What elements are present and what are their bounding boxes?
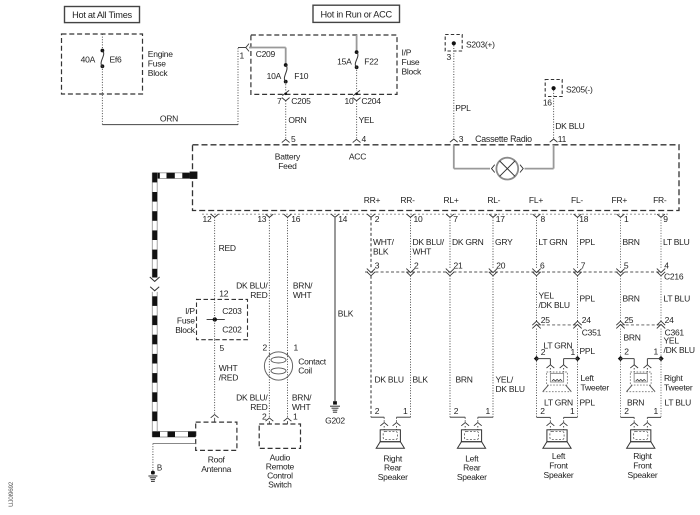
label PPL (FL bottom)	[580, 398, 596, 408]
label C361	[665, 327, 685, 337]
radio pin 5	[282, 134, 296, 144]
svg-text:2: 2	[541, 347, 546, 357]
radio pin 9	[657, 214, 668, 224]
svg-text:BRN: BRN	[624, 333, 641, 343]
S203 pin 3 label	[447, 52, 452, 62]
label Right Front Speaker	[628, 451, 658, 480]
label C351	[582, 327, 602, 337]
svg-text:I/P: I/P	[402, 48, 412, 58]
label ACC	[349, 152, 366, 162]
svg-text:8: 8	[541, 214, 546, 224]
svg-text:DK BLU/: DK BLU/	[236, 393, 268, 403]
radio pin 1	[617, 214, 629, 224]
svg-text:I/P: I/P	[185, 306, 195, 316]
left rear speaker pin 1	[474, 406, 491, 430]
svg-text:1: 1	[571, 347, 576, 357]
radio pin 2	[367, 214, 380, 224]
switch pin 2	[262, 412, 273, 425]
label Right Tweeter	[664, 373, 693, 392]
svg-text:Hot at All Times: Hot at All Times	[72, 10, 132, 20]
left rear speaker	[457, 430, 485, 448]
ground G202	[330, 401, 340, 412]
svg-text:BLK: BLK	[413, 375, 429, 385]
svg-text:BRN: BRN	[627, 398, 644, 408]
svg-text:1: 1	[486, 406, 491, 416]
wire FR- to right front speaker (LT BLU)	[647, 359, 661, 418]
connector C204 pin 10	[345, 90, 382, 106]
label C203	[222, 306, 242, 316]
radio pin 17	[489, 214, 505, 224]
I/P fuse block label (small)	[175, 306, 196, 335]
label YEL	[359, 115, 375, 125]
svg-text:12: 12	[203, 214, 212, 224]
label Contact Coil	[298, 356, 326, 375]
svg-text:18: 18	[579, 214, 588, 224]
C202 pin 5 label	[220, 343, 225, 353]
wire FL- to left front speaker (PPL)	[564, 359, 578, 418]
svg-text:10: 10	[345, 96, 354, 106]
left front speaker	[543, 430, 571, 448]
wire RL+ (DK GRN)	[449, 217, 451, 268]
roof antenna box	[196, 422, 237, 450]
I/P fuse block label (top)	[402, 48, 423, 77]
svg-text:Speaker: Speaker	[628, 470, 658, 480]
svg-text:LT BLU: LT BLU	[664, 294, 691, 304]
engine fuse block box	[62, 34, 143, 94]
svg-text:DK BLU/: DK BLU/	[413, 237, 445, 247]
radio pin 12	[203, 214, 219, 224]
wire FR- C216 to C361 (LT BLU)	[660, 276, 662, 321]
svg-text:F22: F22	[364, 57, 378, 67]
svg-text:/DK BLU: /DK BLU	[664, 345, 695, 355]
svg-text:25: 25	[624, 315, 633, 325]
audio remote control switch box	[259, 424, 300, 448]
label Roof Antenna	[201, 454, 231, 474]
wire: feed into fuse Ef6	[101, 34, 103, 51]
right tweeter pin 2	[630, 365, 638, 373]
wire RL- (GRY)	[492, 217, 494, 268]
wire: BLK from radio pin 14	[335, 217, 354, 401]
svg-text:DK BLU: DK BLU	[555, 121, 584, 131]
C216 pin 7	[573, 261, 586, 276]
I/P fuse block box (C203/C202)	[197, 299, 248, 339]
radio pin 10	[407, 214, 423, 224]
junction node FR- tweeter tap	[654, 347, 664, 362]
svg-text:PPL: PPL	[580, 346, 596, 356]
wire FR+ C361 to junction (BRN)	[620, 329, 622, 359]
svg-text:WHT: WHT	[413, 247, 432, 257]
svg-text:1: 1	[570, 406, 575, 416]
svg-text:Engine: Engine	[148, 49, 173, 59]
wire RR+ (WHT/BLK)	[370, 217, 372, 268]
label B	[157, 464, 162, 473]
header box: Hot in Run or ACC	[313, 5, 400, 22]
svg-text:G202: G202	[325, 415, 345, 425]
svg-text:3: 3	[447, 52, 452, 62]
radio pin 11	[550, 134, 567, 144]
wire FR+ C216 to C361 (BRN)	[620, 276, 622, 321]
svg-text:WHT: WHT	[293, 290, 312, 300]
label BRN (FR low)	[624, 333, 641, 343]
svg-text:FR+: FR+	[612, 195, 628, 205]
svg-text:RED: RED	[250, 290, 267, 300]
wire: lamp feed from pin 3	[454, 145, 490, 169]
lamp right chevron	[520, 165, 523, 173]
wire: DK BLU from S205 to radio pin 11	[554, 90, 585, 139]
C216 pin 3	[367, 261, 380, 276]
junction node FL- tweeter tap	[571, 347, 581, 361]
svg-text:Tweeter: Tweeter	[664, 382, 693, 392]
label PPL (FL low)	[580, 346, 596, 356]
right front speaker	[627, 430, 655, 448]
svg-text:C216: C216	[664, 272, 684, 282]
svg-text:/RED: /RED	[219, 372, 238, 382]
label YEL/DK BLU (RL)	[496, 375, 525, 395]
connector C361 row line	[621, 324, 662, 326]
svg-text:Switch: Switch	[268, 480, 292, 490]
wire: YEL to radio pin 4	[356, 101, 358, 140]
svg-text:Speaker: Speaker	[378, 472, 408, 482]
left tweeter pin 2	[547, 365, 555, 373]
wire RL- below C216 (YEL/DK BLU)	[478, 276, 493, 417]
wire through fuse block	[214, 299, 216, 339]
svg-text:Antenna: Antenna	[201, 464, 231, 474]
coax in-line connector arrow	[150, 277, 160, 281]
label BRN	[623, 237, 640, 247]
coax in-line connector chevron	[150, 287, 159, 291]
label BRN (RL)	[456, 375, 473, 385]
contact coil pin 1 label	[294, 343, 299, 353]
wire: WHT/RED to roof antenna	[215, 340, 239, 415]
wire FR- (LT BLU)	[660, 217, 662, 268]
wire: FL+ branch to left tweeter	[537, 359, 551, 365]
svg-text:2: 2	[540, 406, 545, 416]
svg-text:YEL/: YEL/	[496, 375, 514, 385]
label BRN/WHT (upper)	[293, 281, 313, 301]
svg-text:9: 9	[663, 214, 668, 224]
svg-text:BLK: BLK	[373, 247, 389, 257]
wire FL+ C351 to junction (LT GRN)	[536, 329, 538, 359]
svg-text:RL+: RL+	[443, 195, 458, 205]
C351 pin 24	[573, 315, 591, 328]
label BRN (FR bottom)	[627, 398, 644, 408]
cassette radio box	[193, 145, 680, 211]
svg-text:13: 13	[257, 214, 266, 224]
S205 pin 16 label	[543, 98, 552, 108]
contact coil pin 2 label	[263, 343, 268, 353]
splice junction C203/C202	[207, 317, 225, 321]
svg-text:BRN: BRN	[623, 237, 640, 247]
svg-text:LT GRN: LT GRN	[544, 398, 573, 408]
wire FL- C351 to junction (PPL)	[577, 329, 579, 359]
svg-text:2: 2	[375, 406, 380, 416]
svg-text:LT BLU: LT BLU	[663, 237, 690, 247]
wire: ORN to radio pin 5	[285, 101, 287, 140]
svg-text:21: 21	[454, 261, 463, 271]
C216 pin 21	[446, 261, 463, 276]
svg-text:S203(+): S203(+)	[466, 39, 495, 49]
label BRN (FR mid)	[623, 294, 640, 304]
label LT BLU (FR bottom)	[665, 398, 692, 408]
wire RL+ below C216 (BRN)	[450, 276, 465, 417]
wire RR- (DK BLU/WHT)	[410, 217, 412, 268]
wire: PPL from S203 to radio pin 3	[454, 45, 471, 139]
label PPL	[580, 237, 596, 247]
right rear speaker	[376, 430, 404, 448]
label DK GRN	[452, 237, 484, 247]
svg-text:RED: RED	[250, 402, 267, 412]
svg-text:YEL: YEL	[359, 115, 375, 125]
svg-text:FR-: FR-	[653, 195, 667, 205]
svg-text:5: 5	[624, 261, 629, 271]
connector C205 pin 7	[277, 90, 311, 106]
junction node FL+ tweeter tap	[534, 347, 546, 361]
radio pin 16	[284, 214, 301, 224]
svg-text:Fuse: Fuse	[148, 59, 166, 69]
svg-text:Cassette Radio: Cassette Radio	[475, 134, 532, 144]
svg-text:Speaker: Speaker	[457, 472, 487, 482]
svg-text:WHT: WHT	[292, 402, 311, 412]
svg-text:7: 7	[581, 261, 586, 271]
svg-text:2: 2	[624, 347, 629, 357]
left tweeter	[543, 372, 572, 392]
label C202	[222, 325, 242, 335]
svg-text:PPL: PPL	[455, 103, 471, 113]
svg-text:1: 1	[294, 343, 299, 353]
svg-text:ORN: ORN	[160, 113, 178, 123]
svg-text:Roof: Roof	[208, 454, 226, 464]
left front speaker pin 1	[560, 406, 575, 430]
svg-text:Fuse: Fuse	[402, 57, 420, 67]
left front speaker pin 2	[540, 406, 554, 430]
svg-text:DK GRN: DK GRN	[452, 237, 484, 247]
right front speaker pin 2	[624, 406, 638, 430]
svg-text:15A: 15A	[337, 57, 352, 67]
C351 pin 25	[532, 315, 550, 328]
label PPL (FL mid)	[580, 294, 596, 304]
svg-text:UJ0I9692: UJ0I9692	[8, 481, 15, 507]
svg-text:40A: 40A	[81, 55, 96, 65]
wire: F10 output to box edge	[285, 82, 287, 91]
wire: DK BLU/RED from radio pin 13	[268, 217, 270, 353]
svg-text:GRY: GRY	[495, 237, 513, 247]
svg-text:20: 20	[496, 261, 505, 271]
splice S205(-)	[545, 80, 593, 97]
radio pin 7	[446, 214, 458, 224]
svg-text:4: 4	[362, 134, 367, 144]
left rear speaker pin 2	[454, 406, 469, 430]
ground B	[148, 471, 157, 482]
engine fuse block label	[148, 49, 173, 78]
svg-text:FL+: FL+	[529, 195, 543, 205]
svg-text:BRN/: BRN/	[293, 281, 313, 291]
label G202	[325, 415, 345, 425]
wire: ORN horizontal run	[102, 113, 238, 124]
connector C209 pin 1	[240, 44, 276, 61]
svg-text:/DK BLU: /DK BLU	[539, 300, 570, 310]
svg-text:LT GRN: LT GRN	[539, 237, 568, 247]
right rear speaker pin 1	[393, 406, 408, 430]
svg-text:4: 4	[664, 261, 669, 271]
svg-text:12: 12	[219, 288, 228, 298]
svg-text:Feed: Feed	[278, 161, 297, 171]
label Cassette Radio	[475, 134, 532, 144]
svg-text:C205: C205	[291, 96, 311, 106]
coax antenna cable: lower vertical	[152, 292, 157, 437]
wire FL+ to left front speaker (LT GRN)	[537, 359, 551, 418]
wire: BRN/WHT from radio pin 16	[287, 217, 289, 353]
svg-text:ACC: ACC	[349, 152, 366, 162]
svg-text:PPL: PPL	[580, 294, 596, 304]
svg-text:7: 7	[453, 214, 458, 224]
radio pin 8	[533, 214, 546, 224]
C216 pin 6	[532, 261, 545, 276]
label Right Rear Speaker	[378, 453, 408, 482]
label LT BLU	[663, 237, 690, 247]
svg-text:ORN: ORN	[288, 115, 306, 125]
wire FL+ (LT GRN)	[536, 217, 538, 268]
svg-text:10: 10	[414, 214, 423, 224]
svg-text:FL-: FL-	[571, 195, 583, 205]
right tweeter	[626, 372, 655, 392]
wire: feed into fuse F22	[356, 35, 358, 52]
label C216	[664, 272, 684, 282]
svg-text:PPL: PPL	[580, 237, 596, 247]
label Left Rear Speaker	[457, 453, 487, 482]
svg-text:RED: RED	[219, 243, 236, 253]
connector C351 row line	[537, 324, 578, 326]
wire FR- C361 to junction (YEL/DK BLU)	[660, 329, 662, 359]
svg-text:Tweeter: Tweeter	[581, 382, 610, 392]
label DK BLU/RED (upper)	[236, 281, 268, 301]
label BLK (RR)	[413, 375, 429, 385]
wire: RED from radio pin 12	[215, 217, 236, 299]
svg-text:Block: Block	[175, 325, 196, 335]
C361 pin 25	[616, 315, 633, 328]
label WHT/BLK	[373, 237, 395, 257]
svg-text:7: 7	[277, 96, 282, 106]
wire RR- below C216 (BLK)	[397, 276, 411, 417]
label LT GRN (FL bottom)	[544, 398, 573, 408]
svg-text:1: 1	[240, 51, 245, 61]
svg-text:Ef6: Ef6	[110, 55, 123, 65]
svg-text:2: 2	[414, 261, 419, 271]
wire FL- C216 to C351 (PPL)	[577, 276, 579, 321]
svg-text:DK BLU/: DK BLU/	[236, 281, 268, 291]
svg-text:25: 25	[541, 315, 550, 325]
label ORN (I/P)	[288, 115, 306, 125]
svg-text:F10: F10	[294, 71, 308, 81]
svg-text:C351: C351	[582, 327, 602, 337]
label DK BLU (RR)	[375, 375, 404, 385]
svg-text:PPL: PPL	[580, 398, 596, 408]
fuse Ef6 40A	[81, 49, 122, 69]
radio speaker pin function labels	[364, 195, 667, 205]
label LT GRN (FL)	[544, 341, 573, 351]
splice S203(+)	[445, 35, 495, 52]
svg-text:Block: Block	[148, 68, 169, 78]
svg-text:DK BLU: DK BLU	[375, 375, 404, 385]
radio bottom connector strip	[202, 213, 670, 215]
svg-text:10A: 10A	[267, 71, 282, 81]
coax antenna cable: horizontal to roof antenna	[152, 432, 195, 438]
svg-text:Block: Block	[402, 67, 423, 77]
svg-text:1: 1	[624, 214, 629, 224]
svg-text:BRN: BRN	[623, 294, 640, 304]
svg-text:24: 24	[665, 315, 674, 325]
svg-text:WHT/: WHT/	[373, 237, 395, 247]
svg-text:2: 2	[263, 343, 268, 353]
illumination lamp	[496, 158, 518, 180]
svg-text:5: 5	[291, 134, 296, 144]
document number	[8, 481, 15, 507]
junction node FR+ tweeter tap	[618, 347, 630, 362]
lamp left chevron	[492, 165, 495, 173]
roof antenna pin	[211, 415, 219, 423]
svg-text:5: 5	[220, 343, 225, 353]
label Left Front Speaker	[544, 451, 574, 480]
wire: lamp return to pin 11	[525, 145, 554, 169]
svg-text:BRN/: BRN/	[292, 393, 312, 403]
svg-text:1: 1	[403, 406, 408, 416]
label LT BLU (FR mid)	[664, 294, 691, 304]
svg-text:24: 24	[582, 315, 591, 325]
I/P fuse block box (top)	[251, 35, 397, 94]
radio pin 3	[450, 134, 464, 144]
svg-text:BLK: BLK	[338, 309, 354, 319]
wire: F22 output to box edge	[356, 67, 358, 91]
svg-text:16: 16	[291, 214, 300, 224]
svg-text:C203: C203	[222, 306, 242, 316]
svg-text:1: 1	[654, 406, 659, 416]
right front speaker pin 1	[644, 406, 659, 430]
svg-text:C204: C204	[361, 96, 381, 106]
svg-text:Speaker: Speaker	[544, 470, 574, 480]
wire: FL- branch to left tweeter	[564, 359, 578, 365]
wire: FR+ branch to right tweeter	[621, 359, 635, 365]
svg-text:RL-: RL-	[487, 195, 500, 205]
svg-text:6: 6	[540, 261, 545, 271]
wire FR+ to right front speaker (BRN)	[621, 359, 635, 418]
label Left Tweeter	[581, 373, 610, 392]
label YEL/DK BLU (FL)	[539, 291, 570, 311]
wire FL+ C216 to C351 (YEL/DK BLU)	[536, 276, 538, 321]
svg-text:2: 2	[454, 406, 459, 416]
svg-text:Hot in Run or ACC: Hot in Run or ACC	[321, 10, 393, 20]
svg-text:2: 2	[624, 406, 629, 416]
wire: BRN/WHT to switch	[287, 379, 289, 418]
svg-text:3: 3	[459, 134, 464, 144]
svg-text:C202: C202	[222, 325, 242, 335]
wire: C209 to fuse F10 (feed)	[249, 48, 286, 66]
C216 pin 2	[406, 261, 419, 276]
header box: Hot at All Times	[65, 7, 140, 23]
radio pin 14	[331, 214, 348, 224]
wire: fuse Ef6 output (ORN) vertical	[101, 66, 103, 124]
svg-text:1: 1	[654, 347, 659, 357]
switch pin 1	[284, 412, 298, 425]
svg-text:YEL: YEL	[539, 291, 555, 301]
coax antenna cable: horizontal from radio	[152, 173, 190, 179]
label YEL/DK BLU (FR)	[664, 336, 695, 355]
label GRY	[495, 237, 513, 247]
C203 pin 12 label	[219, 288, 228, 298]
svg-text:S205(-): S205(-)	[566, 84, 593, 94]
C216 pin 20	[489, 261, 506, 276]
label LT GRN	[539, 237, 568, 247]
right rear speaker pin 2	[375, 406, 388, 430]
fuse F22 15A	[337, 50, 379, 69]
